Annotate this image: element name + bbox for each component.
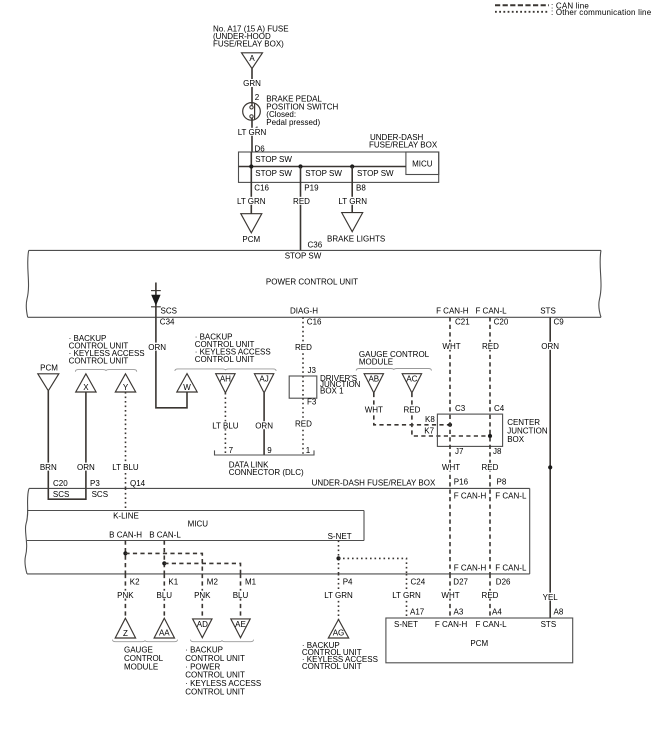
svg-text:LT GRN: LT GRN (338, 197, 367, 206)
svg-text:F CAN-H: F CAN-H (454, 492, 487, 501)
wire D6 input (250, 152, 252, 182)
svg-text:STS: STS (540, 307, 556, 316)
svg-text:SCS: SCS (161, 306, 177, 315)
svg-text:PCM: PCM (470, 639, 488, 648)
wire B CAN-H to K2 (124, 541, 126, 574)
svg-text:AE: AE (235, 620, 246, 629)
svg-text:RED: RED (293, 197, 310, 206)
driver's junction box 1 (289, 374, 360, 398)
svg-text:RED: RED (482, 342, 499, 351)
backup/keyless group label 1 (69, 334, 145, 366)
svg-text:AA: AA (159, 629, 170, 638)
svg-text:C16: C16 (307, 318, 322, 327)
svg-text:C20: C20 (53, 479, 68, 488)
connector to PCM (left) (38, 364, 59, 391)
svg-text:SCS: SCS (53, 490, 69, 499)
svg-text:F CAN-L: F CAN-L (495, 564, 527, 573)
under-dash fuse/relay box (lower) (25, 488, 530, 574)
brace gauge control module (bottom) (113, 640, 178, 642)
svg-text:A17: A17 (410, 608, 425, 617)
legend other communication line sample (495, 11, 549, 13)
connector AC (402, 374, 421, 393)
MICU box (lower) (27, 511, 364, 541)
svg-text:S-NET: S-NET (394, 620, 418, 629)
svg-text:MICU: MICU (188, 520, 209, 529)
svg-text:B8: B8 (356, 184, 366, 193)
wire ORN X to P3 (85, 392, 87, 488)
wire LT GRN to PCM (250, 182, 252, 213)
connector Y (115, 374, 135, 392)
svg-text:A3: A3 (454, 608, 464, 617)
F CAN-H through box (449, 490, 451, 574)
svg-text:K2: K2 (130, 578, 140, 587)
junction dot P19 (298, 164, 302, 168)
wire ORN STS C9 down (549, 317, 551, 618)
svg-text:P4: P4 (343, 578, 353, 587)
svg-text:RED: RED (482, 591, 499, 600)
svg-text:BLU: BLU (233, 591, 249, 600)
svg-text:RED: RED (295, 419, 312, 428)
svg-text:PCM: PCM (242, 235, 260, 244)
F CAN-L through box (489, 490, 491, 574)
svg-text:P3: P3 (90, 479, 100, 488)
junction dot K7/C4 (488, 434, 492, 438)
wire LT GRN to brake lights (351, 182, 353, 212)
svg-text:PNK: PNK (194, 591, 211, 600)
svg-text:: Other communication line: : Other communication line (551, 8, 652, 17)
wire ORN SCS to W (156, 317, 187, 408)
svg-text:AH: AH (220, 375, 231, 384)
gauge control module label (bottom) (124, 646, 164, 672)
svg-text:C24: C24 (411, 578, 426, 587)
svg-text:STOP SW: STOP SW (255, 169, 292, 178)
svg-text:CONTROL UNIT: CONTROL UNIT (69, 357, 129, 366)
wire RED F CAN-L C20 to P8 (489, 317, 491, 489)
svg-text:2: 2 (255, 93, 260, 102)
MICU box (under-dash) (406, 152, 439, 175)
wire RED diag-h to J3 (302, 317, 304, 376)
connector X (76, 374, 96, 392)
brace gauge module (356, 369, 431, 371)
svg-text:CONNECTOR (DLC): CONNECTOR (DLC) (229, 468, 304, 477)
svg-text:LT BLU: LT BLU (212, 421, 239, 430)
junction dot D6 (249, 164, 253, 168)
wire LT BLU AH to DLC 7 (224, 393, 226, 455)
connector AD (193, 619, 212, 638)
svg-text:A: A (249, 54, 255, 63)
svg-text:LT GRN: LT GRN (324, 591, 353, 600)
svg-text:STOP SW: STOP SW (255, 155, 292, 164)
stop sw bus (239, 166, 406, 168)
wire WHT F CAN-H C21 to P16 (449, 317, 451, 489)
svg-text:PCM: PCM (40, 364, 58, 373)
center junction box (437, 414, 547, 446)
svg-text:J7: J7 (455, 447, 464, 456)
svg-text:B CAN-H: B CAN-H (109, 531, 142, 540)
svg-text:P19: P19 (304, 184, 319, 193)
legend CAN line sample (495, 4, 549, 6)
svg-text:STS: STS (541, 620, 557, 629)
svg-text:UNDER-DASH FUSE/RELAY BOX: UNDER-DASH FUSE/RELAY BOX (312, 478, 436, 487)
connector AA (154, 618, 174, 638)
svg-text:F CAN-H: F CAN-H (454, 564, 487, 573)
junction dot B8 (350, 164, 354, 168)
svg-text:ORN: ORN (77, 463, 95, 472)
svg-text:STOP SW: STOP SW (357, 169, 394, 178)
svg-text:BLU: BLU (157, 591, 173, 600)
svg-text:F CAN-L: F CAN-L (475, 307, 507, 316)
wire S-NET to P4 (338, 541, 340, 574)
svg-text:B CAN-L: B CAN-L (149, 531, 181, 540)
svg-text:FUSE/RELAY BOX: FUSE/RELAY BOX (369, 141, 438, 150)
svg-text:WHT: WHT (442, 463, 460, 472)
svg-text:K7: K7 (424, 426, 434, 435)
wire GRN fuse to switch (251, 69, 253, 106)
power control unit box (26, 250, 601, 317)
wire to B8 (351, 167, 353, 183)
wire BLU K1 to AA (163, 574, 165, 618)
svg-text:Z: Z (123, 629, 128, 638)
wire to P19 (300, 167, 302, 183)
svg-text:D26: D26 (496, 578, 511, 587)
junction dot S-NET (336, 556, 340, 560)
PCM box (386, 618, 573, 663)
svg-text:K8: K8 (425, 415, 435, 424)
brake pedal position switch (243, 103, 261, 121)
svg-text:7: 7 (229, 446, 234, 455)
under-dash fuse/relay box (stop sw) (239, 152, 439, 182)
svg-text:AC: AC (406, 375, 417, 384)
YEL label (540, 593, 561, 602)
svg-text:GRN: GRN (243, 79, 261, 88)
svg-text:C4: C4 (494, 404, 505, 413)
svg-text:CONTROL UNIT: CONTROL UNIT (302, 662, 362, 671)
svg-text:BOX: BOX (507, 435, 525, 444)
GRN label (240, 79, 264, 88)
svg-text:ORN: ORN (148, 343, 166, 352)
svg-text:LT GRN: LT GRN (237, 197, 266, 206)
svg-text:W: W (183, 383, 191, 392)
backup/keyless label (AG) (302, 641, 378, 671)
under-dash fuse/relay box label (369, 133, 438, 150)
wire RED to C36 (300, 182, 302, 250)
wire B CAN-L to K1 (163, 541, 165, 574)
svg-text:WHT: WHT (365, 405, 383, 414)
svg-text:C20: C20 (494, 318, 509, 327)
svg-text:C16: C16 (254, 184, 269, 193)
svg-text:STOP SW: STOP SW (285, 251, 322, 260)
wire WHT AB to K8 (374, 393, 450, 425)
brace backup/power/keyless (bottom) (191, 640, 254, 642)
svg-text:X: X (83, 383, 89, 392)
svg-text:STOP SW: STOP SW (305, 169, 342, 178)
svg-text:J3: J3 (308, 366, 317, 375)
connector AB (364, 374, 383, 393)
svg-text:P8: P8 (497, 478, 507, 487)
wire BLU M1 to AE (240, 574, 242, 619)
fuse A17 label (213, 25, 289, 49)
svg-text:ORN: ORN (255, 421, 273, 430)
svg-text:F CAN-H: F CAN-H (436, 307, 469, 316)
SCS internal arrow (151, 283, 161, 318)
wire RED F3 to DLC (302, 398, 304, 455)
svg-text:D27: D27 (453, 578, 468, 587)
junction dot B CAN-L (162, 561, 166, 565)
wire ORN AJ to DLC 9 (263, 393, 265, 455)
svg-text:RED: RED (403, 405, 420, 414)
svg-text:M2: M2 (207, 578, 219, 587)
svg-text:MODULE: MODULE (124, 662, 158, 671)
svg-text:PNK: PNK (117, 591, 134, 600)
svg-text:AG: AG (333, 629, 345, 638)
B CAN-L bus to M1 (164, 563, 240, 574)
svg-text:AB: AB (368, 375, 379, 384)
backup/power/keyless label (185, 646, 261, 697)
brace group 1 (75, 370, 136, 372)
svg-text:RED: RED (295, 343, 312, 352)
svg-text:MICU: MICU (412, 159, 433, 168)
svg-text:Q14: Q14 (130, 479, 146, 488)
svg-text:RED: RED (481, 463, 498, 472)
connector AJ (254, 374, 273, 393)
svg-text:LT BLU: LT BLU (112, 463, 139, 472)
svg-text:M1: M1 (245, 578, 257, 587)
junction dot STS (548, 465, 552, 469)
svg-text:AD: AD (197, 620, 208, 629)
svg-text:C34: C34 (160, 318, 175, 327)
svg-text:K1: K1 (168, 578, 178, 587)
backup/keyless group label 2 (195, 333, 271, 365)
svg-text:C9: C9 (554, 318, 565, 327)
svg-text:LT GRN: LT GRN (238, 128, 267, 137)
B CAN-H bus to M2 (125, 553, 202, 574)
svg-text:F CAN-L: F CAN-L (476, 620, 508, 629)
connector Z (115, 618, 135, 638)
junction dot B CAN-H (123, 551, 127, 555)
brake pedal switch label (266, 95, 338, 127)
svg-text:SCS: SCS (92, 490, 108, 499)
svg-text:DIAG-H: DIAG-H (290, 306, 318, 315)
svg-text:K-LINE: K-LINE (113, 512, 139, 521)
svg-text:BRN: BRN (40, 463, 57, 472)
connector A (fuse) (242, 53, 263, 69)
SCS jumper C20-P3 (48, 488, 86, 499)
gauge control module label (mid) (359, 350, 430, 367)
svg-text:A8: A8 (554, 608, 564, 617)
svg-text:1: 1 (306, 446, 311, 455)
svg-text:F CAN-L: F CAN-L (495, 492, 527, 501)
S-NET bus to C24 (339, 558, 407, 574)
LT GRN label (236, 128, 268, 137)
svg-text:9: 9 (267, 446, 272, 455)
svg-text:YEL: YEL (543, 593, 559, 602)
connector AG (328, 620, 348, 639)
svg-text:POWER CONTROL UNIT: POWER CONTROL UNIT (266, 278, 358, 287)
wire LT GRN C24 to A17 (406, 574, 408, 618)
svg-text:A4: A4 (492, 608, 502, 617)
wire BRN PCM to C20 (47, 391, 49, 489)
connector AE (231, 619, 250, 638)
svg-text:CONTROL UNIT: CONTROL UNIT (195, 355, 255, 364)
svg-text:Pedal pressed): Pedal pressed) (266, 118, 320, 127)
svg-text:FUSE/RELAY BOX): FUSE/RELAY BOX) (213, 40, 284, 49)
wire RED D26 to A4 (489, 574, 491, 618)
svg-text:BRAKE LIGHTS: BRAKE LIGHTS (327, 235, 385, 244)
wire LT BLU Y to Q14 (125, 392, 127, 488)
svg-text:Y: Y (123, 383, 129, 392)
svg-text:LT GRN: LT GRN (392, 591, 421, 600)
data link connector (DLC) (215, 446, 315, 477)
svg-text:J8: J8 (493, 447, 502, 456)
svg-text:AJ: AJ (259, 375, 268, 384)
wire PNK K2 to Z (124, 574, 126, 618)
svg-text:F3: F3 (307, 397, 317, 406)
svg-text:S-NET: S-NET (328, 532, 352, 541)
wire K-LINE Q14 to MICU (125, 488, 127, 510)
svg-text:ORN: ORN (541, 342, 559, 351)
svg-text:MODULE: MODULE (359, 358, 393, 367)
connector to brake lights (327, 213, 385, 244)
svg-text:WHT: WHT (441, 591, 459, 600)
wire RED AC to K7 (412, 393, 490, 436)
wire PNK M2 to AD (201, 574, 203, 619)
junction dot K8/C3 (448, 423, 452, 427)
svg-text:CONTROL UNIT: CONTROL UNIT (185, 687, 245, 696)
wire LT GRN switch to D6 (251, 118, 253, 152)
svg-text:C3: C3 (455, 404, 466, 413)
wire WHT D27 to A3 (449, 574, 451, 618)
svg-text:P16: P16 (454, 478, 469, 487)
connector AH (216, 374, 235, 393)
svg-text:BOX 1: BOX 1 (320, 386, 344, 395)
svg-text:F CAN-H: F CAN-H (435, 620, 468, 629)
brace group 2 (175, 369, 276, 371)
svg-text:C21: C21 (455, 318, 470, 327)
connector W (177, 374, 197, 392)
svg-text:WHT: WHT (442, 342, 460, 351)
svg-text:C36: C36 (308, 240, 323, 249)
connector to PCM (stop sw) (241, 214, 262, 244)
wire LT GRN P4 to AG (338, 574, 340, 620)
